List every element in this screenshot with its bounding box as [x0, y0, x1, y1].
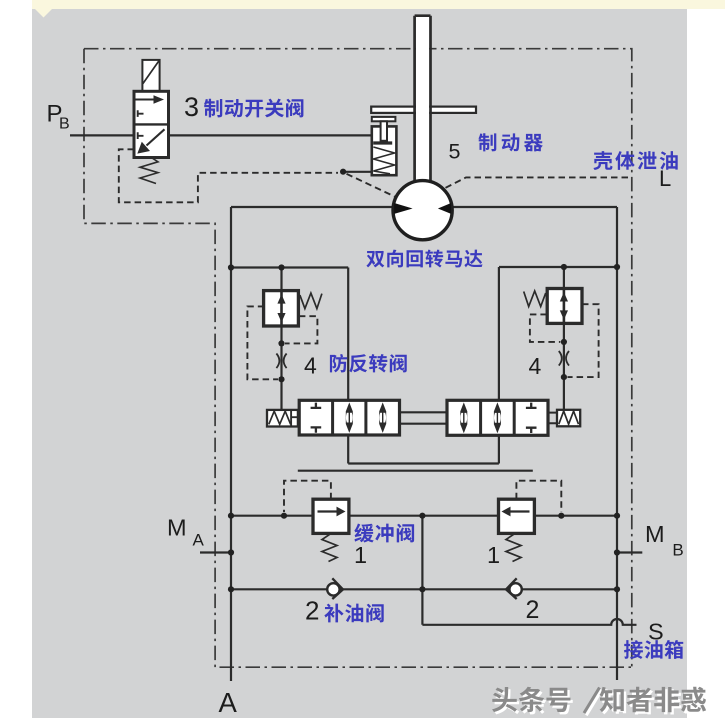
svg-text:B: B	[59, 116, 70, 133]
svg-text:3: 3	[184, 92, 199, 122]
svg-text:L: L	[659, 166, 671, 191]
svg-text:2: 2	[526, 596, 540, 624]
svg-text:4: 4	[304, 353, 317, 379]
svg-text:4: 4	[529, 353, 542, 379]
svg-text:1: 1	[354, 542, 367, 568]
svg-text:M: M	[167, 515, 187, 541]
svg-text:2: 2	[305, 595, 319, 625]
svg-text:M: M	[645, 521, 665, 547]
svg-text:A: A	[219, 687, 238, 718]
svg-text:5: 5	[449, 140, 461, 164]
svg-text:A: A	[193, 531, 205, 550]
svg-text:B: B	[672, 541, 683, 560]
svg-text:1: 1	[487, 542, 500, 568]
